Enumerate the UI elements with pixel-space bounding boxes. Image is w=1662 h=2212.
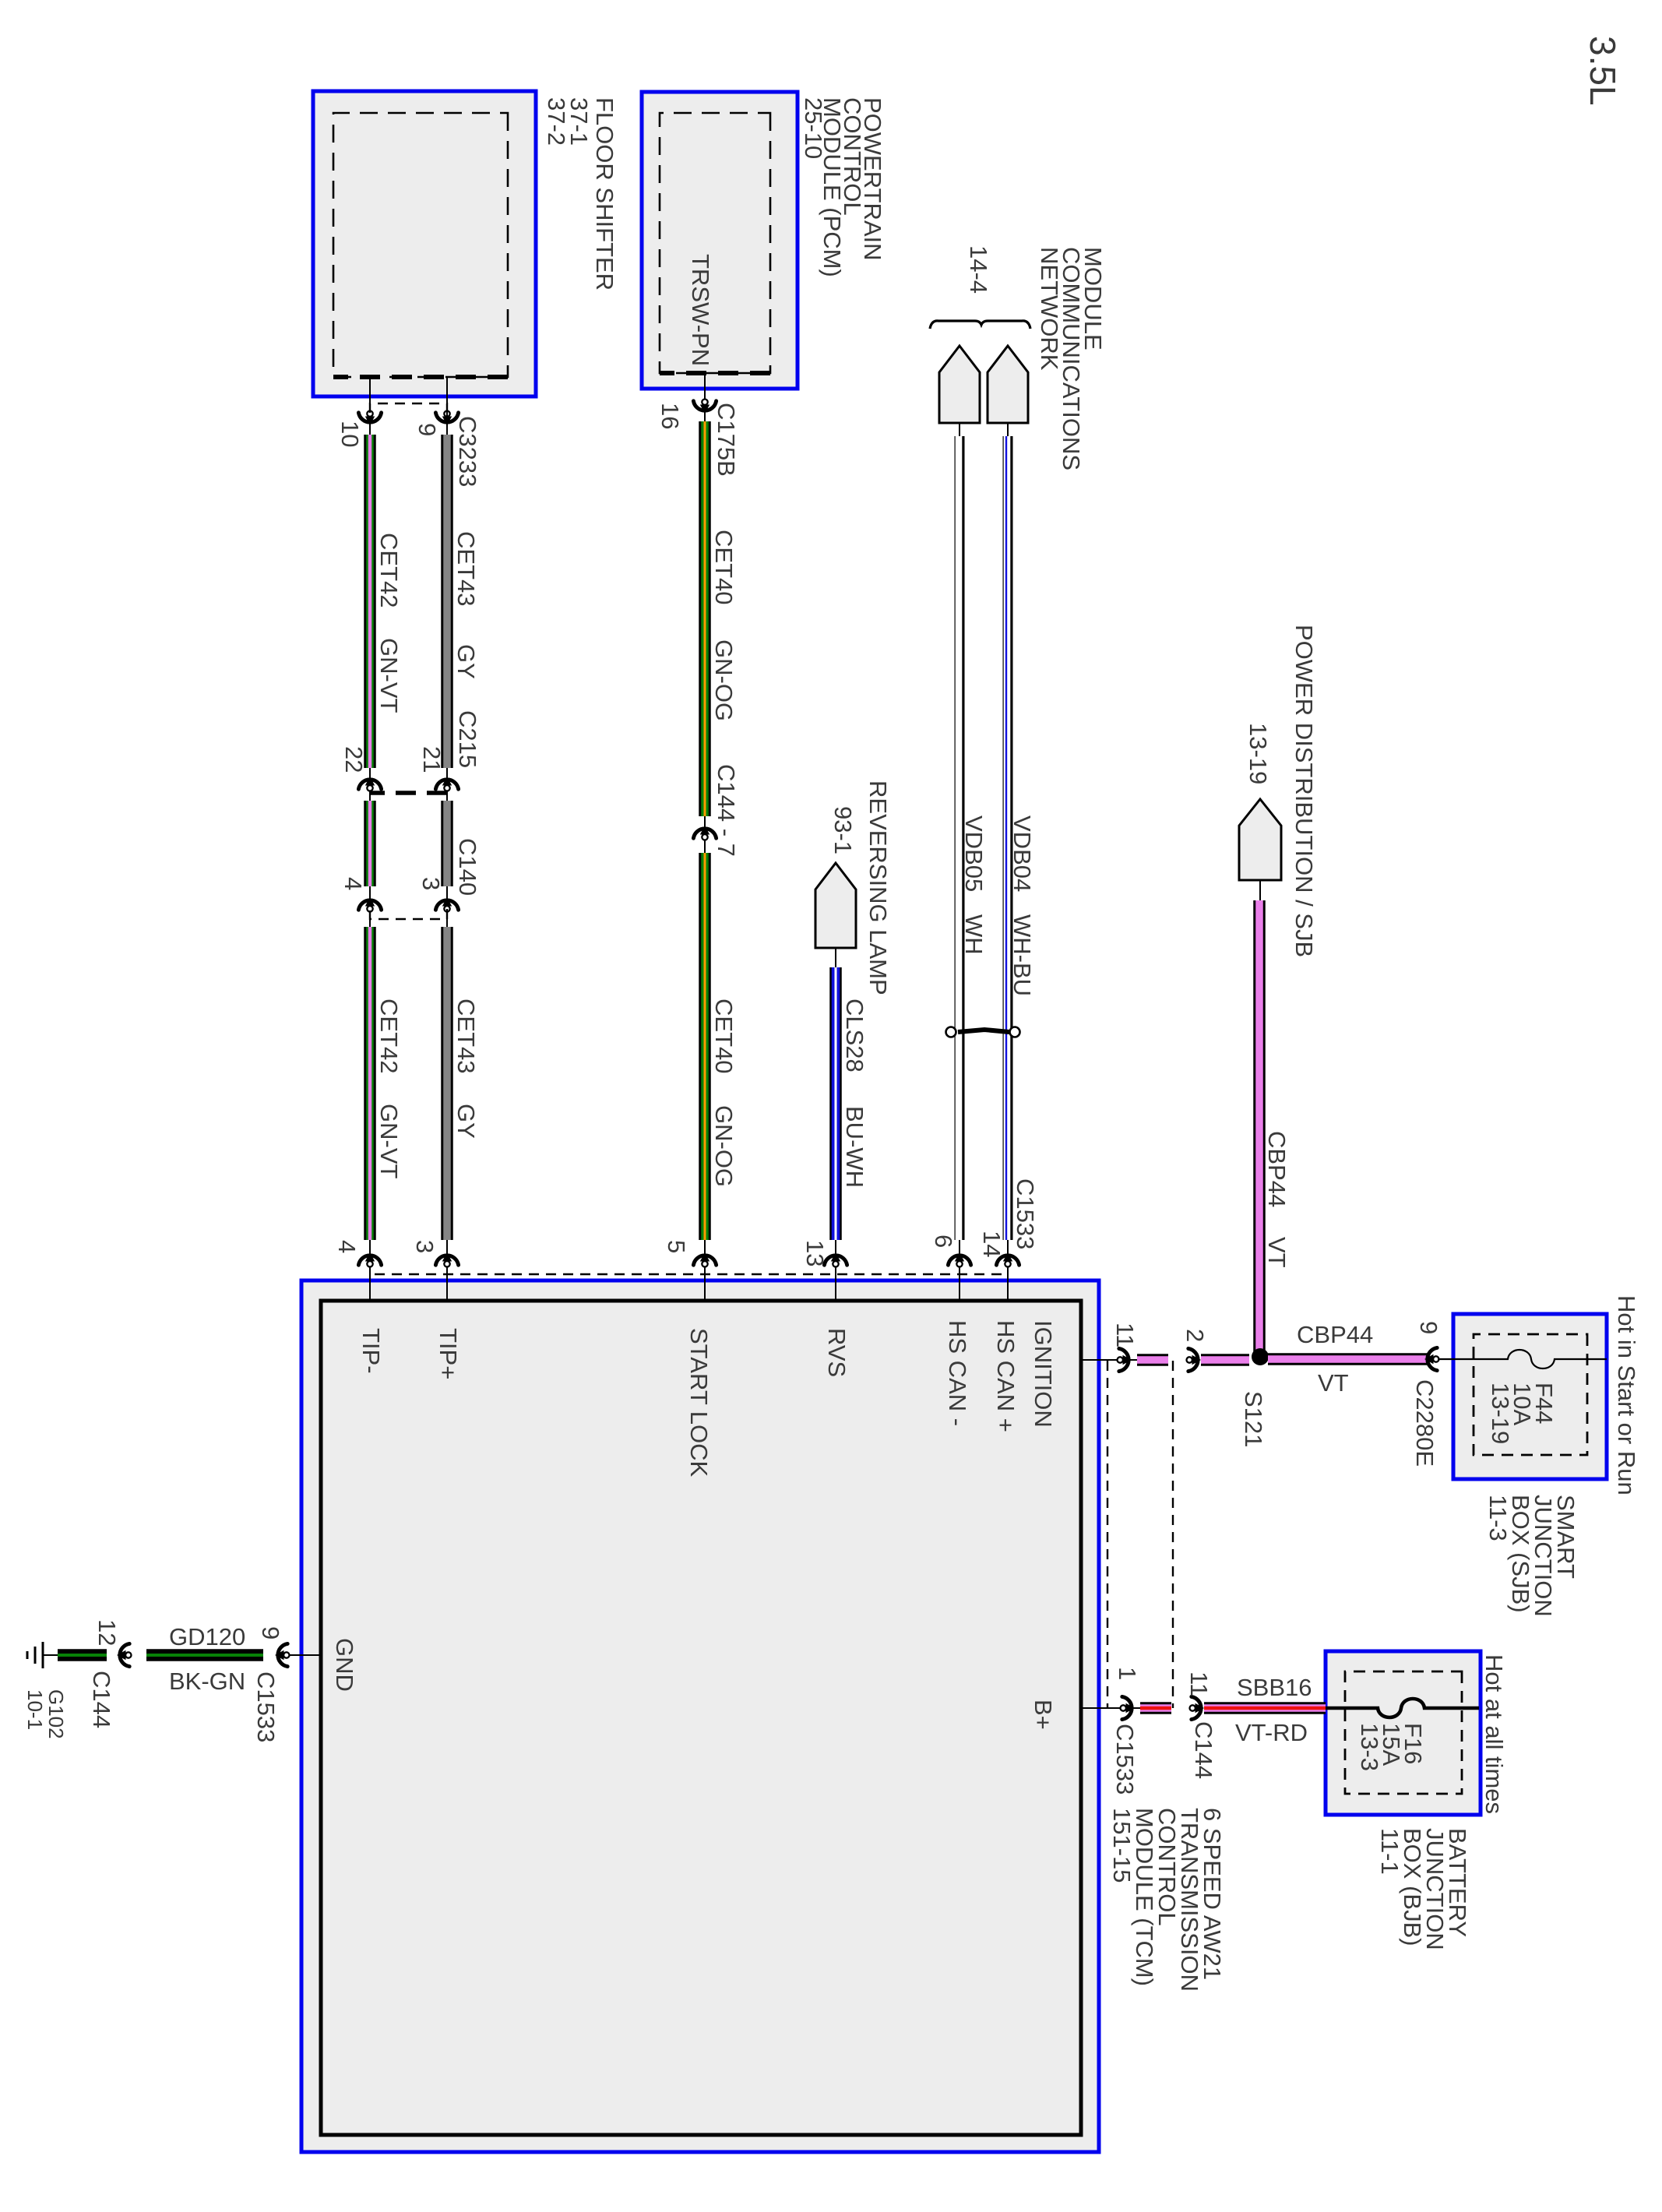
svg-text:HS CAN -: HS CAN - (944, 1320, 971, 1426)
battery junction box (BJB) with fuse F16 (1326, 1651, 1481, 1815)
pin 3 label (C140) (417, 877, 445, 890)
svg-text:4: 4 (340, 877, 367, 890)
wire CET43 GY segment 2 (441, 927, 453, 1301)
wire CLS28 labels (841, 999, 868, 1188)
connector C140 label (454, 838, 481, 896)
connector C144 dashed line (top pins) (1172, 1361, 1174, 1708)
svg-text:RVS: RVS (823, 1328, 850, 1377)
wire CLS28 BU-WH (829, 967, 842, 1301)
pin 21 label (418, 746, 445, 773)
floor shifter component box (313, 91, 536, 396)
svg-text:CET43: CET43 (452, 999, 480, 1073)
svg-text:11: 11 (1185, 1671, 1213, 1696)
svg-text:13-3: 13-3 (1356, 1723, 1383, 1771)
svg-text:12: 12 (93, 1619, 121, 1646)
svg-text:GN-VT: GN-VT (375, 638, 403, 713)
pin 16 label (657, 403, 684, 429)
svg-text:3.5L: 3.5L (1583, 36, 1623, 106)
svg-text:10: 10 (336, 421, 364, 447)
connector C3233 label (454, 416, 481, 487)
module communications network connector VDB04 (988, 346, 1028, 436)
svg-text:Hot in Start or Run: Hot in Start or Run (1613, 1295, 1640, 1495)
connector C1533 label (B+) (1111, 1724, 1139, 1795)
power distribution label (1245, 625, 1318, 957)
pin 11 label (C144) (1185, 1671, 1213, 1696)
svg-text:CET43: CET43 (452, 531, 480, 606)
svg-text:4: 4 (333, 1240, 361, 1253)
svg-text:VDB04: VDB04 (1009, 815, 1036, 892)
wire VDB05 labels (960, 815, 988, 955)
wire VDB04 WH-BU (1006, 436, 1008, 1301)
connector C144 label (B+) (1190, 1721, 1217, 1779)
wire CET40 labels seg2 (710, 999, 738, 1187)
TCM connector C1533 arrows for left pins (358, 1252, 1019, 1274)
title 3.5L (1583, 36, 1623, 106)
svg-text:3: 3 (411, 1240, 438, 1253)
connector C144-7 arrow (693, 816, 716, 853)
svg-text:C3233: C3233 (454, 416, 481, 487)
hot in start or run label (1613, 1295, 1640, 1495)
smart junction box (SJB) with fuse F44 (1453, 1314, 1607, 1479)
svg-text:S121: S121 (1240, 1391, 1267, 1447)
svg-text:C215: C215 (454, 710, 481, 768)
wire CET40 GN-OG segment 2 (699, 853, 711, 1301)
svg-text:37-2: 37-2 (543, 97, 570, 146)
svg-text:Hot at all times: Hot at all times (1481, 1654, 1508, 1814)
svg-text:POWER DISTRIBUTION / SJB: POWER DISTRIBUTION / SJB (1291, 625, 1318, 957)
wire CET42 GN-VT segment 2 (364, 927, 376, 1301)
svg-text:BK-GN: BK-GN (169, 1668, 245, 1695)
splice S121 label (1240, 1391, 1267, 1447)
module communications network label (965, 245, 1107, 470)
svg-text:9: 9 (1415, 1321, 1442, 1334)
pin 9 label (C1533 gnd) (257, 1626, 284, 1640)
svg-text:VT-RD: VT-RD (1235, 1719, 1308, 1746)
wire VDB05 WH (959, 436, 960, 1301)
ground wire GD120 BK-GN from TCM (43, 1643, 321, 1666)
connector C1533 label (top) (1012, 1178, 1039, 1249)
pin 13 label (801, 1240, 829, 1266)
connector C2280E label (1411, 1379, 1438, 1467)
svg-text:1: 1 (1114, 1667, 1141, 1680)
svg-text:10-1: 10-1 (23, 1689, 47, 1730)
svg-text:13-19: 13-19 (1487, 1382, 1514, 1444)
svg-text:14: 14 (978, 1231, 1005, 1257)
svg-text:9: 9 (257, 1626, 284, 1640)
pin 6 label (930, 1235, 957, 1248)
svg-text:C1533: C1533 (252, 1671, 280, 1742)
module communications network connector VDB05 (939, 346, 980, 436)
BJB label (1376, 1828, 1471, 1950)
connector C215 label (454, 710, 481, 768)
connector C3233 arrows pins 10 and 9 (358, 403, 458, 425)
pin 3 label (C1533) (411, 1240, 438, 1253)
6 speed AW21 transmission control module (TCM) box (301, 1280, 1099, 2152)
ground G102 label (23, 1689, 68, 1739)
svg-text:11-3: 11-3 (1484, 1495, 1512, 1541)
svg-text:CBP44: CBP44 (1297, 1321, 1373, 1348)
svg-text:C1533: C1533 (1012, 1178, 1039, 1249)
svg-text:HS CAN +: HS CAN + (992, 1320, 1019, 1432)
svg-text:TRSW-PN: TRSW-PN (687, 254, 714, 366)
svg-text:IGNITION: IGNITION (1030, 1320, 1057, 1428)
wire CET42 GN-VT short segment (364, 801, 376, 886)
splice S121 (1252, 1348, 1269, 1365)
svg-text:B+: B+ (1030, 1700, 1057, 1730)
TCM pin names (331, 1320, 1057, 1730)
wire CET42 labels seg2 (375, 999, 403, 1179)
fuse F44 label (1487, 1382, 1558, 1444)
pin 4 label (C140) (340, 877, 367, 890)
svg-text:VDB05: VDB05 (960, 815, 988, 892)
wire CET42 GN-VT segment 1 (369, 377, 371, 768)
svg-text:GND: GND (331, 1638, 358, 1692)
svg-text:NETWORK: NETWORK (1036, 247, 1063, 371)
svg-text:GN-OG: GN-OG (710, 1105, 738, 1187)
wire CET43 GY short segment (441, 801, 453, 886)
svg-text:6: 6 (930, 1235, 957, 1248)
svg-text:G102: G102 (44, 1689, 68, 1739)
svg-text:C2280E: C2280E (1411, 1379, 1438, 1467)
svg-text:CLS28: CLS28 (841, 999, 868, 1073)
svg-text:C144: C144 (88, 1671, 115, 1728)
powertrain control module (PCM) box (642, 92, 798, 389)
wire CBP44 VT from S121 up to C2280E (1268, 1347, 1453, 1370)
connector C215 arrows pins 22 and 21 (358, 768, 458, 801)
connector C140 arrows pins 4 and 3 (358, 886, 458, 927)
PCM label (800, 97, 886, 277)
svg-text:5: 5 (663, 1240, 690, 1253)
connector C175B label (713, 403, 740, 477)
twisted pair symbol (946, 1027, 1020, 1037)
svg-text:21: 21 (418, 746, 445, 773)
svg-text:FLOOR SHIFTER: FLOOR SHIFTER (591, 97, 618, 291)
svg-text:C140: C140 (454, 838, 481, 896)
svg-text:16: 16 (657, 403, 684, 429)
svg-text:SBB16: SBB16 (1237, 1674, 1312, 1701)
wire CET42 labels seg1 (375, 533, 403, 713)
svg-text:C175B: C175B (713, 403, 740, 477)
svg-text:TIP+: TIP+ (435, 1328, 462, 1379)
TCM label (1108, 1808, 1226, 1992)
svg-text:CET40: CET40 (710, 530, 738, 604)
svg-text:C144 - 7: C144 - 7 (713, 764, 740, 857)
wire CET43 labels seg1 (452, 531, 480, 679)
wire SBB16 labels (rotated) (1235, 1674, 1312, 1746)
svg-text:CET42: CET42 (375, 533, 403, 608)
svg-text:C144: C144 (1190, 1721, 1217, 1779)
svg-text:3: 3 (417, 877, 445, 890)
wire CET43 GY segment 1 (446, 377, 448, 768)
svg-text:VT: VT (1318, 1369, 1349, 1397)
pin 2 label (C144) (1181, 1329, 1209, 1342)
wire VDB04 labels (1009, 815, 1036, 996)
svg-text:14-4: 14-4 (965, 245, 992, 294)
reversing lamp label (829, 780, 892, 995)
ground G102 symbol (27, 1642, 43, 1668)
svg-text:25-10: 25-10 (800, 97, 827, 159)
pin 10 label (336, 421, 364, 447)
svg-text:151-15: 151-15 (1108, 1808, 1136, 1883)
pin 9 label (C2280E) (1415, 1321, 1442, 1334)
svg-text:9: 9 (414, 423, 441, 436)
svg-text:11-1: 11-1 (1376, 1828, 1403, 1875)
wire CBP44 labels (vertical, rotated) (1297, 1321, 1373, 1397)
svg-text:BU-WH: BU-WH (841, 1106, 868, 1188)
svg-text:11: 11 (1111, 1323, 1139, 1347)
svg-text:START LOCK: START LOCK (685, 1328, 713, 1478)
pin 11 label (C1533) (1111, 1323, 1139, 1347)
svg-text:22: 22 (340, 746, 368, 773)
svg-text:93-1: 93-1 (829, 806, 857, 854)
svg-text:REVERSING LAMP: REVERSING LAMP (864, 780, 892, 995)
pin 22 label (340, 746, 368, 773)
svg-text:GY: GY (452, 1104, 480, 1139)
network bus bracket (930, 321, 1030, 329)
wire GD120 labels (rotated) (169, 1623, 245, 1695)
svg-text:GD120: GD120 (169, 1623, 245, 1650)
pin 14 label (978, 1231, 1005, 1257)
connector C144 label (gnd) (88, 1671, 115, 1728)
svg-text:TIP-: TIP- (357, 1328, 385, 1374)
pin 4 label (C1533) (333, 1240, 361, 1253)
svg-text:GN-OG: GN-OG (710, 639, 738, 721)
svg-text:13-19: 13-19 (1245, 723, 1272, 784)
pin 5 label (663, 1240, 690, 1253)
connector C1533 label (gnd) (252, 1671, 280, 1742)
pin 12 label (C144 gnd) (93, 1619, 121, 1646)
wire CBP44 VT from power distribution to S121 (1253, 900, 1266, 1357)
svg-text:VT: VT (1263, 1237, 1291, 1268)
svg-text:C1533: C1533 (1111, 1724, 1139, 1795)
SJB label (1484, 1495, 1579, 1617)
pin 1 label (C1533) (1114, 1667, 1141, 1680)
connector C144-7 label (713, 764, 740, 857)
hot at all times label (1481, 1654, 1508, 1814)
power distribution / SJB off-page connector (1239, 799, 1281, 900)
fuse F16 label (1356, 1723, 1427, 1771)
svg-text:CBP44: CBP44 (1263, 1131, 1291, 1207)
floor shifter label (543, 97, 618, 291)
fuse F44 element (1431, 1350, 1607, 1368)
svg-text:CET40: CET40 (710, 999, 738, 1073)
connector C1533 dashed line (top pins) (1107, 1361, 1108, 1708)
wire CBP44 labels (horizontal) (1263, 1131, 1291, 1268)
svg-text:2: 2 (1181, 1329, 1209, 1342)
PCM internal pin name TRSW-PN (687, 254, 714, 366)
B+ feed wire from BJB to TCM (1081, 1696, 1326, 1719)
ignition feed wire from S121 to TCM (1081, 1348, 1249, 1371)
wire CET43 labels seg2 (452, 999, 480, 1139)
wire CET40 labels seg1 (710, 530, 738, 721)
svg-text:WH-BU: WH-BU (1009, 914, 1036, 996)
svg-text:CET42: CET42 (375, 999, 403, 1073)
pin 9 label (414, 423, 441, 436)
svg-text:GY: GY (452, 644, 480, 679)
hot at all times feed line and fuse F16 element (1326, 1699, 1479, 1717)
wire CET40 GN-OG segment 1 (693, 373, 716, 816)
reversing lamp off-page connector (815, 863, 856, 967)
svg-text:GN-VT: GN-VT (375, 1104, 403, 1179)
svg-text:WH: WH (960, 914, 988, 955)
